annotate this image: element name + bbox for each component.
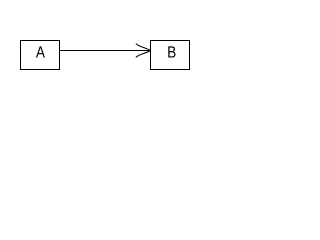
box B <box>151 41 190 70</box>
arrowhead upper barb <box>136 44 150 51</box>
label A <box>36 46 45 57</box>
wire A to B <box>60 50 150 52</box>
label B <box>168 46 175 57</box>
arrowhead lower barb <box>136 51 150 58</box>
box A <box>21 41 60 70</box>
